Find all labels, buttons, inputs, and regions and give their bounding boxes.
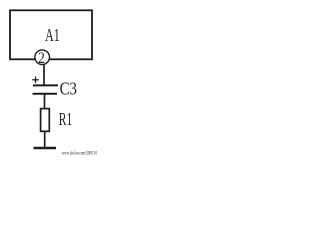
- svg-text:www.dz-fan.com/2009.10: www.dz-fan.com/2009.10: [62, 149, 97, 156]
- wire node2 to capacitor: [43, 64, 45, 85]
- wire resistor to ground: [44, 131, 46, 148]
- svg-text:R1: R1: [59, 109, 72, 129]
- svg-text:C3: C3: [60, 78, 77, 98]
- resistor R1 body: [41, 109, 50, 132]
- background: [0, 0, 100, 158]
- polarity plus sign: [32, 79, 39, 81]
- node 2 (terminal circle): [35, 50, 50, 65]
- wire capacitor to resistor: [44, 94, 46, 109]
- capacitor C3 top plate: [33, 84, 58, 86]
- box A1 (amplifier block): [10, 10, 92, 59]
- ground bar: [34, 147, 57, 150]
- capacitor C3 bottom plate: [33, 93, 58, 95]
- svg-text:A1: A1: [45, 25, 60, 45]
